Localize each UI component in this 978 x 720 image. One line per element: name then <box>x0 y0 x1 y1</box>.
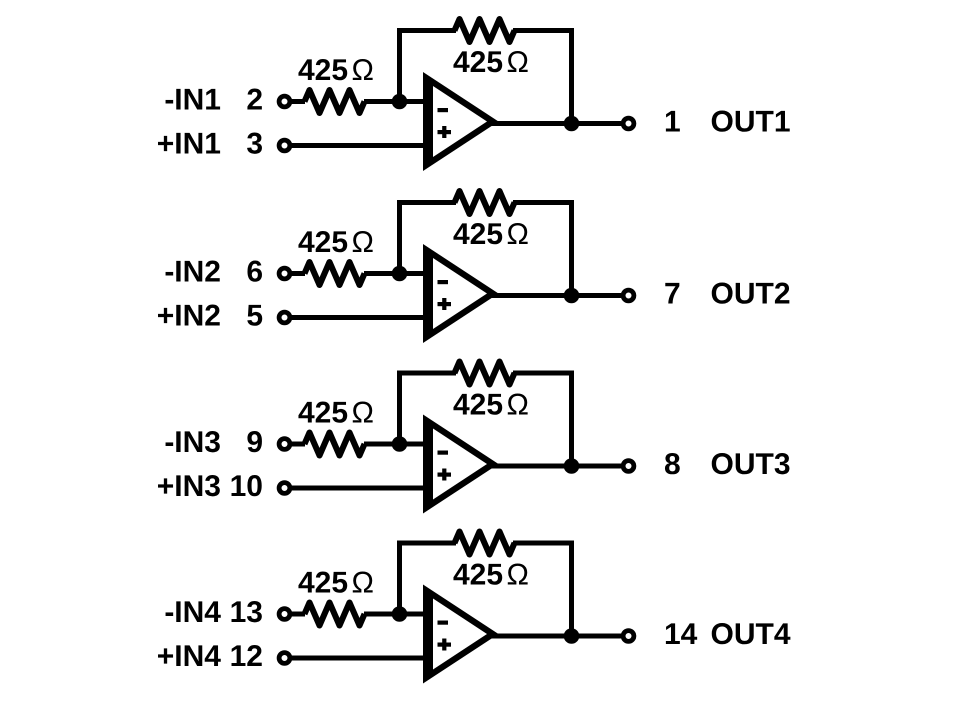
svg-text:OUT2: OUT2 <box>711 278 791 311</box>
svg-text:8: 8 <box>664 448 681 481</box>
svg-text:OUT3: OUT3 <box>711 448 791 481</box>
svg-text:5: 5 <box>246 300 263 333</box>
svg-text:+IN4: +IN4 <box>157 640 222 673</box>
svg-text:+IN3: +IN3 <box>157 470 221 503</box>
svg-text:6: 6 <box>246 256 263 289</box>
svg-text:12: 12 <box>230 640 263 673</box>
svg-text:-IN3: -IN3 <box>164 426 221 459</box>
svg-text:+IN2: +IN2 <box>157 300 221 333</box>
svg-text:2: 2 <box>246 84 263 117</box>
svg-text:-IN2: -IN2 <box>164 256 221 289</box>
svg-text:-IN1: -IN1 <box>164 84 221 117</box>
svg-text:3: 3 <box>246 128 263 161</box>
svg-text:10: 10 <box>230 470 263 503</box>
svg-text:7: 7 <box>664 278 681 311</box>
svg-text:14: 14 <box>664 618 698 651</box>
svg-text:OUT4: OUT4 <box>711 618 791 651</box>
svg-text:OUT1: OUT1 <box>711 106 791 139</box>
svg-text:1: 1 <box>664 106 681 139</box>
svg-text:9: 9 <box>246 426 263 459</box>
svg-text:+IN1: +IN1 <box>157 128 221 161</box>
svg-text:-IN4: -IN4 <box>164 596 221 629</box>
svg-text:13: 13 <box>230 596 263 629</box>
